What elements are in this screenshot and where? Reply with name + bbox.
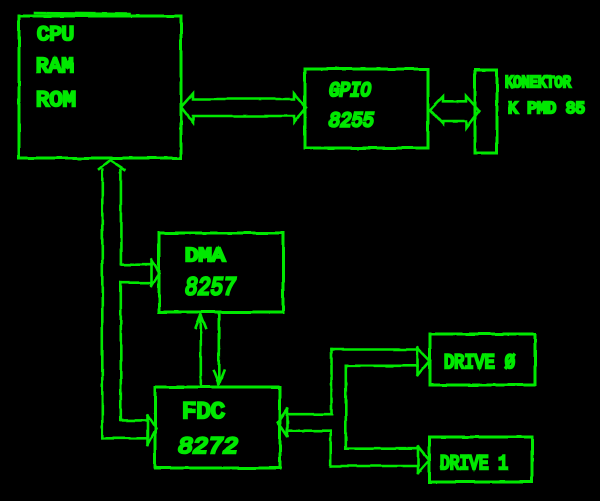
svg-text:8257: 8257 xyxy=(185,273,236,303)
box U1 CPU/RAM/ROM xyxy=(19,13,181,158)
svg-text:ROM: ROM xyxy=(36,88,76,113)
box U2 GPIO 8255 xyxy=(305,69,428,148)
wire DRIVE0 to DRIVE1 xyxy=(346,366,418,449)
arrowhead into DRIVE 1 xyxy=(418,447,429,473)
arrowhead into DMA left xyxy=(152,260,160,287)
svg-text:8255: 8255 xyxy=(329,111,374,134)
wire bus into FDC xyxy=(102,420,147,438)
svg-text:DRIVE 1: DRIVE 1 xyxy=(440,453,508,476)
wire bus into DMA xyxy=(121,265,152,283)
wire FDC to drives top tail xyxy=(288,350,418,415)
svg-text:GPIO: GPIO xyxy=(329,80,371,103)
arrowhead into DRIVE 0 xyxy=(418,348,431,376)
box U4 FDC 8272 xyxy=(155,387,280,468)
wire FDC to drives bottom tail xyxy=(287,431,418,466)
arrow DMA-FDC up xyxy=(196,315,207,388)
box U6 DRIVE 1 xyxy=(429,437,532,482)
bus arrow into CPU bottom (hollow up arrow) xyxy=(99,160,125,438)
svg-text:K PMD 85: K PMD 85 xyxy=(508,99,585,118)
bus arrow CPU-GPIO (double headed hollow) xyxy=(181,94,306,123)
bus arrow GPIO-KONEKTOR (double headed hollow) xyxy=(430,96,479,128)
arrowhead into FDC right (pointing left) xyxy=(278,409,287,436)
connector J1 KONEKTOR K PMD 85 xyxy=(475,70,497,153)
box U3 DMA 8257 xyxy=(159,233,283,312)
box U5 DRIVE 0 xyxy=(430,334,535,385)
wire DMA to FDC vertical xyxy=(120,283,123,421)
svg-text:KONEKTOR: KONEKTOR xyxy=(505,73,571,92)
arrowhead into FDC left xyxy=(148,415,157,445)
svg-text:CPU: CPU xyxy=(37,24,74,47)
svg-text:8272: 8272 xyxy=(178,434,238,460)
svg-text:DMA: DMA xyxy=(185,245,226,267)
svg-text:DRIVE Ø: DRIVE Ø xyxy=(444,352,515,375)
svg-text:RAM: RAM xyxy=(36,56,74,79)
arrow DMA-FDC down xyxy=(214,312,225,385)
svg-text:FDC: FDC xyxy=(182,399,225,425)
